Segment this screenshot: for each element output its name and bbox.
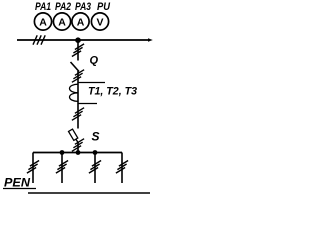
ammeter PA3 xyxy=(72,13,89,30)
three-phase mark above S xyxy=(72,108,84,121)
wire: transformer to switch S xyxy=(77,101,79,129)
svg-text:PA2: PA2 xyxy=(55,1,71,13)
svg-text:V: V xyxy=(96,16,103,28)
distribution bus xyxy=(33,152,122,154)
svg-text:A: A xyxy=(77,16,85,28)
underline of PEN label xyxy=(3,188,36,190)
feeder wire 2 xyxy=(61,153,63,184)
ammeter PA1 xyxy=(34,13,51,30)
three-phase mark below Q xyxy=(72,70,84,83)
switch S fuse body xyxy=(69,129,78,140)
junction node on supply bus xyxy=(75,37,81,43)
svg-text:PEN: PEN xyxy=(4,178,31,190)
junction node on bus (right) xyxy=(93,150,98,155)
feeder wire 4 xyxy=(121,153,123,184)
svg-text:PA3: PA3 xyxy=(75,1,91,13)
svg-text:S: S xyxy=(92,130,100,144)
svg-text:A: A xyxy=(39,16,47,28)
current transformer T1,T2,T3 winding xyxy=(69,84,78,101)
svg-text:Q: Q xyxy=(90,55,99,67)
feeder wire 3 xyxy=(94,153,96,184)
current transformer T1,T2,T3 secondary tap (bottom) xyxy=(78,103,97,105)
svg-text:PA1: PA1 xyxy=(35,1,51,13)
three-phase mark feeder 3 xyxy=(89,161,101,174)
feeder wire 1 xyxy=(32,153,34,184)
current transformer T1,T2,T3 secondary tap (top) xyxy=(78,82,105,84)
wire: bus to switch Q xyxy=(77,40,79,61)
three-phase mark on supply bus xyxy=(33,35,45,44)
three-phase mark feeder 1 xyxy=(27,161,39,174)
three-phase mark above Q xyxy=(72,44,84,57)
svg-text:A: A xyxy=(58,16,66,28)
arrowhead on supply bus xyxy=(148,38,153,42)
three-phase mark feeder 4 xyxy=(116,161,128,174)
switch Q blade xyxy=(71,62,80,72)
junction node on bus (left) xyxy=(60,150,65,155)
switch S blade xyxy=(76,139,79,143)
wire: Q to current transformer xyxy=(77,71,79,101)
ammeter PA2 xyxy=(53,13,70,30)
three-phase mark feeder 2 xyxy=(56,161,68,174)
wire: S to distribution bus xyxy=(77,142,79,153)
junction node on bus (center) xyxy=(76,150,81,155)
voltmeter PU xyxy=(91,13,108,30)
wire: incoming supply bus xyxy=(17,39,150,41)
three-phase mark below S xyxy=(72,139,84,152)
PEN conductor xyxy=(28,192,150,194)
svg-text:T1, T2, T3: T1, T2, T3 xyxy=(88,86,137,98)
svg-text:PU: PU xyxy=(97,1,111,13)
